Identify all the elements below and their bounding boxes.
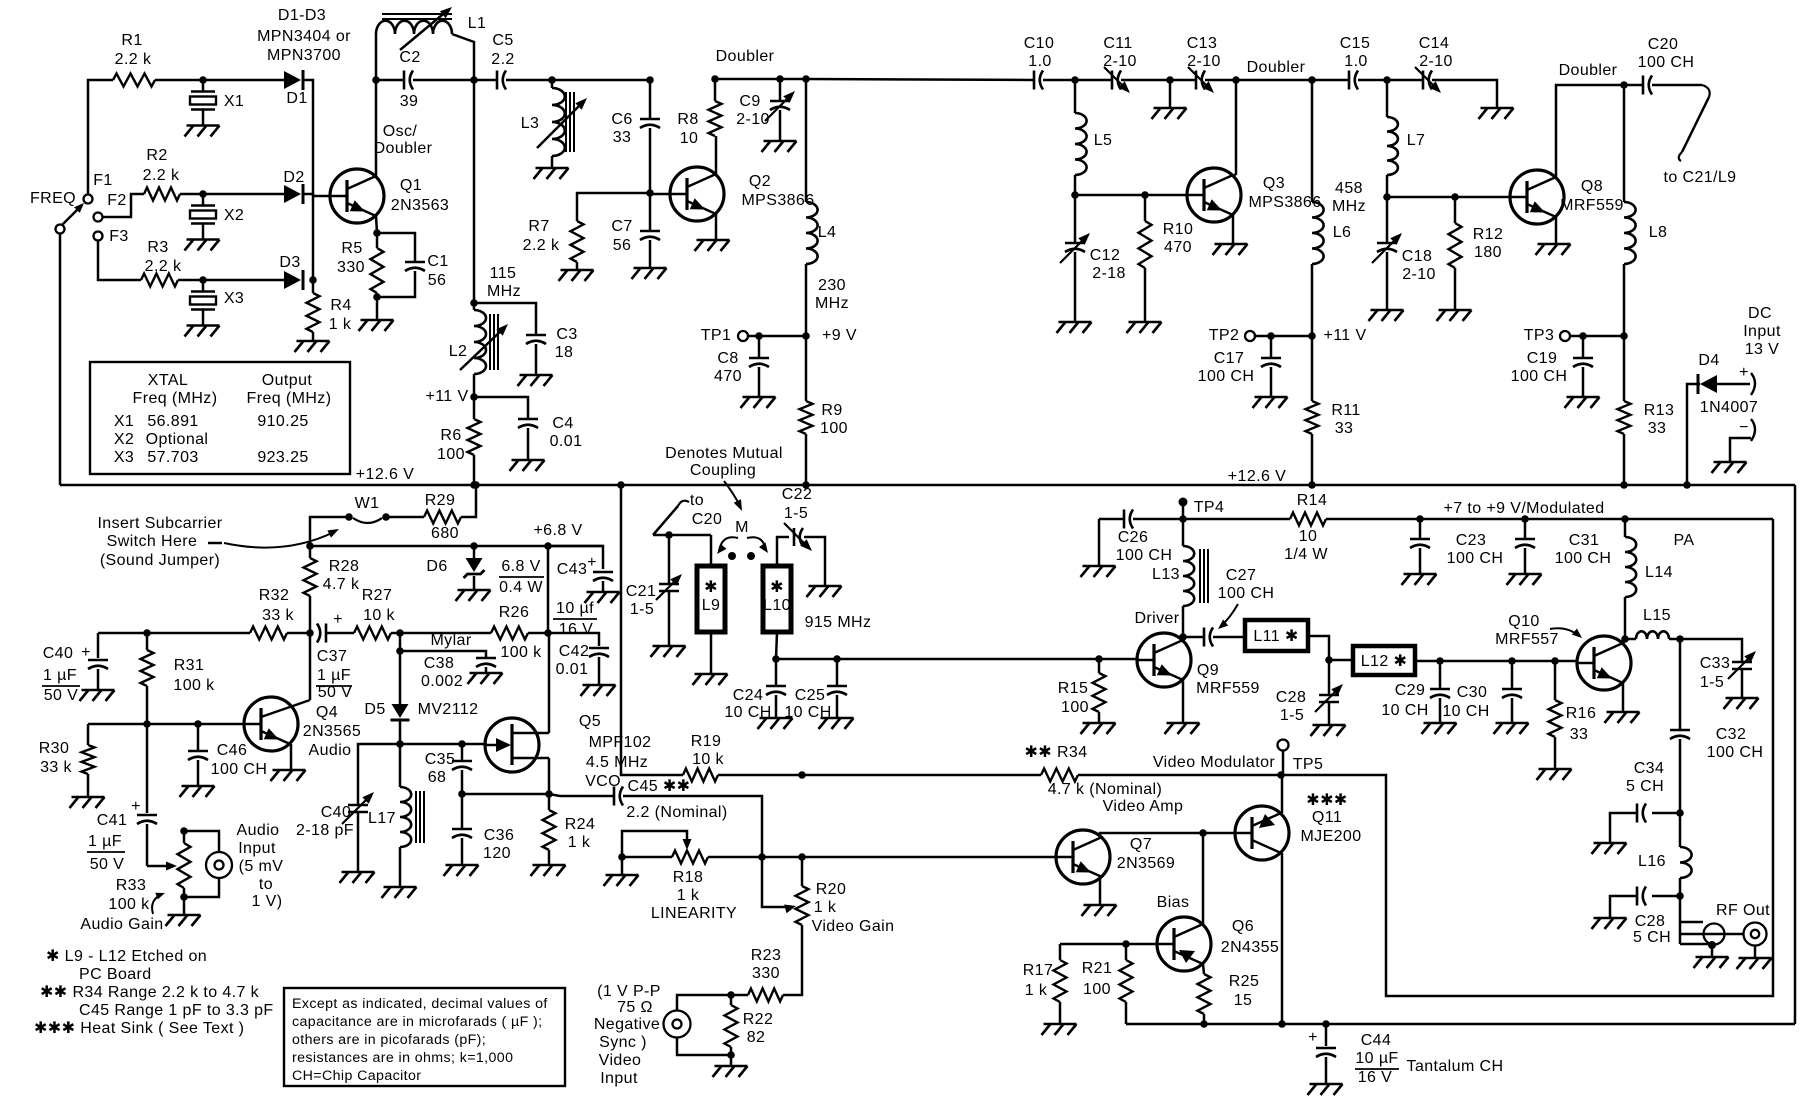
svg-text:C14: C14 xyxy=(1419,35,1450,52)
svg-text:PC Board: PC Board xyxy=(79,966,152,983)
ground R5 xyxy=(359,320,394,331)
wiper C41 to R33 xyxy=(147,862,177,871)
node L3 top xyxy=(548,76,556,84)
open lead to C21/L9 xyxy=(1664,85,1737,186)
svg-text:L15: L15 xyxy=(1643,607,1671,624)
svg-text:+12.6 V: +12.6 V xyxy=(356,466,414,483)
svg-text:R1: R1 xyxy=(121,32,142,49)
svg-text:Q9: Q9 xyxy=(1197,662,1219,679)
svg-text:33: 33 xyxy=(1335,420,1354,437)
capacitor C18 xyxy=(1372,197,1436,310)
svg-text:CH=Chip Capacitor: CH=Chip Capacitor xyxy=(292,1068,421,1084)
svg-text:1.0: 1.0 xyxy=(1344,53,1367,70)
ground C26 xyxy=(1081,566,1116,577)
svg-text:56: 56 xyxy=(613,237,632,254)
svg-text:0.002: 0.002 xyxy=(421,673,463,690)
wire Q4 base line xyxy=(88,723,244,726)
svg-text:C26: C26 xyxy=(1118,529,1149,546)
svg-text:Mylar: Mylar xyxy=(430,632,471,649)
svg-text:Insert Subcarrier: Insert Subcarrier xyxy=(97,515,222,532)
svg-text:Q10: Q10 xyxy=(1508,613,1539,630)
varactor D5 xyxy=(364,651,478,744)
svg-text:W1: W1 xyxy=(355,495,380,512)
svg-text:X2: X2 xyxy=(114,431,134,448)
trimmer C28a xyxy=(1276,660,1343,725)
svg-text:10: 10 xyxy=(1299,528,1318,545)
terminal F2 xyxy=(94,192,127,222)
svg-text:MJE200: MJE200 xyxy=(1300,828,1361,845)
svg-text:capacitance are in microfarads: capacitance are in microfarads ( µF ); xyxy=(292,1014,542,1030)
svg-text:1-5: 1-5 xyxy=(1280,707,1304,724)
node L12 line xyxy=(1325,656,1333,664)
ground Q10 xyxy=(1605,712,1640,723)
svg-text:D3: D3 xyxy=(279,254,300,271)
wire to L12 xyxy=(1329,659,1353,662)
svg-text:L4: L4 xyxy=(818,224,837,241)
rail +6.8V xyxy=(310,522,603,546)
node D4 rail xyxy=(1683,481,1691,489)
wire R26 right xyxy=(528,632,548,635)
svg-text:C34: C34 xyxy=(1634,760,1665,777)
node C43 branch xyxy=(544,542,552,550)
wire Q6 emitter xyxy=(1203,964,1204,974)
svg-text:2N4355: 2N4355 xyxy=(1221,939,1279,956)
ground C29 xyxy=(1422,723,1457,734)
wire filter out line xyxy=(776,658,1137,661)
svg-text:680: 680 xyxy=(431,525,459,542)
svg-text:✱✱ R34: ✱✱ R34 xyxy=(1024,744,1087,761)
svg-text:MRF559: MRF559 xyxy=(1560,197,1624,214)
svg-text:L6: L6 xyxy=(1333,224,1352,241)
node L15 right xyxy=(1676,635,1684,643)
svg-text:to: to xyxy=(259,876,273,893)
svg-text:X1: X1 xyxy=(224,93,244,110)
svg-text:56: 56 xyxy=(428,272,447,289)
svg-text:✱✱✱: ✱✱✱ xyxy=(1306,792,1347,809)
label 915 MHz xyxy=(805,614,872,631)
node R27 right xyxy=(396,629,404,637)
coupling dots xyxy=(728,552,755,560)
node C44 top xyxy=(1322,1020,1330,1028)
capacitor C20 xyxy=(1624,36,1702,95)
svg-text:MRF559: MRF559 xyxy=(1196,680,1260,697)
resistor R18 xyxy=(651,851,737,923)
svg-text:2N3563: 2N3563 xyxy=(391,197,449,214)
svg-text:C2: C2 xyxy=(399,49,420,66)
svg-text:2N3569: 2N3569 xyxy=(1117,855,1175,872)
resistor R8 xyxy=(677,79,721,147)
svg-text:C23: C23 xyxy=(1456,532,1487,549)
zener diode D6 xyxy=(426,546,484,590)
wire right border xyxy=(1794,485,1797,1024)
svg-text:Q6: Q6 xyxy=(1232,918,1254,935)
svg-text:C33: C33 xyxy=(1700,655,1731,672)
node L7 top xyxy=(1383,76,1391,84)
ground R18 xyxy=(604,875,639,886)
ground C33 xyxy=(1724,698,1759,709)
wire Q1 collector xyxy=(375,80,378,176)
svg-text:Bias: Bias xyxy=(1157,894,1190,911)
node D6 top xyxy=(470,542,478,550)
wire source line xyxy=(462,793,549,796)
wire Q6 base line xyxy=(1060,943,1157,946)
svg-text:100: 100 xyxy=(437,446,465,463)
label +11 V b xyxy=(1323,327,1366,344)
inductor L2 xyxy=(449,303,498,397)
inductor L1 xyxy=(376,14,486,80)
wire TP4 xyxy=(1182,502,1185,519)
arrow R33 xyxy=(152,893,165,914)
node C46 top xyxy=(194,720,202,728)
capacitor C8 xyxy=(714,336,769,397)
svg-text:C20: C20 xyxy=(1648,36,1679,53)
resistor R11 xyxy=(1306,336,1361,485)
inductor L7 xyxy=(1387,80,1425,197)
inductor L16 xyxy=(1638,813,1692,896)
resistor R7 xyxy=(523,193,650,270)
svg-text:to C21/L9: to C21/L9 xyxy=(1664,169,1737,186)
svg-text:10 k: 10 k xyxy=(363,607,395,624)
wire R5 to ground xyxy=(376,297,379,320)
capacitor C30 xyxy=(1442,661,1522,723)
capacitor C13 xyxy=(1187,35,1221,93)
node R18 left xyxy=(618,853,626,861)
svg-text:50 V: 50 V xyxy=(318,684,353,701)
svg-text:Doubler: Doubler xyxy=(1559,62,1618,79)
svg-text:+11 V: +11 V xyxy=(425,388,468,405)
testpoint TP5 xyxy=(1278,740,1324,774)
ground R24 xyxy=(531,865,566,876)
svg-text:+: + xyxy=(1739,364,1749,381)
svg-text:18: 18 xyxy=(555,344,574,361)
resistor R9 xyxy=(800,336,848,485)
svg-text:Doubler: Doubler xyxy=(374,140,433,157)
node C34 line xyxy=(1676,809,1684,817)
node C8 top xyxy=(755,332,763,340)
svg-text:D5: D5 xyxy=(364,701,385,718)
switch lever xyxy=(62,203,84,225)
ground C46 xyxy=(180,786,215,797)
svg-text:120: 120 xyxy=(483,845,511,862)
svg-text:L10: L10 xyxy=(763,597,791,614)
wire L10 bottom xyxy=(776,632,777,659)
svg-text:1N4007: 1N4007 xyxy=(1700,399,1758,416)
svg-text:2-10: 2-10 xyxy=(736,111,770,128)
diode D2 xyxy=(283,169,304,204)
testpoint TP2 xyxy=(1209,327,1255,344)
svg-text:923.25: 923.25 xyxy=(257,449,308,466)
capacitor C19 xyxy=(1511,336,1593,397)
arrow L1 tuning xyxy=(400,7,452,50)
svg-text:D1: D1 xyxy=(286,90,307,107)
svg-text:+11 V: +11 V xyxy=(1323,327,1366,344)
node +11V b xyxy=(1308,332,1316,340)
svg-text:2N3565: 2N3565 xyxy=(303,723,361,740)
wire Q5 drain xyxy=(548,633,551,733)
svg-text:2.2 k: 2.2 k xyxy=(145,258,182,275)
wire F2 to R2 xyxy=(103,194,145,217)
resistor R31 xyxy=(141,633,216,724)
svg-text:2-10: 2-10 xyxy=(1402,266,1436,283)
svg-text:2-10: 2-10 xyxy=(1187,53,1221,70)
svg-text:1/4 W: 1/4 W xyxy=(1284,546,1328,563)
svg-text:56.891: 56.891 xyxy=(147,413,198,430)
svg-text:Sync ): Sync ) xyxy=(599,1034,647,1051)
node D3 bus xyxy=(309,276,317,284)
svg-text:R33: R33 xyxy=(116,877,147,894)
node R12 top xyxy=(1451,193,1459,201)
svg-text:MPN3404 or: MPN3404 or xyxy=(257,28,351,45)
wire rail R8-C9 xyxy=(715,78,806,81)
svg-text:(1 V P-P: (1 V P-P xyxy=(597,983,661,1000)
wire F3 to R3 xyxy=(98,241,141,281)
capacitor C35 xyxy=(425,744,472,794)
node C17 top xyxy=(1267,332,1275,340)
svg-text:330: 330 xyxy=(337,259,365,276)
svg-text:6.8 V: 6.8 V xyxy=(501,558,540,575)
svg-text:R28: R28 xyxy=(329,558,360,575)
wiper loop R18 xyxy=(622,831,692,857)
node +11V xyxy=(470,393,478,401)
svg-text:C32: C32 xyxy=(1716,726,1747,743)
svg-text:C45 Range 1 pF to 3.3 pF: C45 Range 1 pF to 3.3 pF xyxy=(79,1002,274,1019)
svg-text:C43: C43 xyxy=(557,561,588,578)
wire Q1 base xyxy=(313,195,330,198)
ground minus terminal xyxy=(1712,462,1747,473)
svg-text:MHz: MHz xyxy=(487,283,521,300)
svg-text:R15: R15 xyxy=(1058,680,1089,697)
svg-text:Doubler: Doubler xyxy=(1247,59,1306,76)
wire TP5 line to PA loop xyxy=(1281,519,1773,996)
arrow Q10 xyxy=(1550,628,1582,638)
svg-text:+: + xyxy=(131,798,141,815)
inductor L8 xyxy=(1624,85,1667,336)
svg-text:X1: X1 xyxy=(114,413,134,430)
svg-text:C15: C15 xyxy=(1340,35,1371,52)
svg-text:C42: C42 xyxy=(559,643,590,660)
svg-text:+: + xyxy=(81,644,91,661)
wire C15 to node xyxy=(1358,79,1387,82)
ground Q2 xyxy=(695,240,730,251)
ground C4 xyxy=(510,460,545,471)
svg-text:Except as indicated, decimal v: Except as indicated, decimal values of xyxy=(292,996,548,1012)
wire to RF connectors xyxy=(1679,896,1682,944)
stripline L10 xyxy=(763,537,791,632)
svg-text:Q5: Q5 xyxy=(579,713,601,730)
wire base to Q2 xyxy=(650,193,670,196)
node Q3 collector top xyxy=(1232,76,1240,84)
node gnd stub 1 xyxy=(1166,76,1174,84)
node R10 top xyxy=(1141,191,1149,199)
svg-text:C28: C28 xyxy=(1276,689,1307,706)
label Doubler 2 xyxy=(1247,59,1306,76)
ground C42 xyxy=(581,685,616,696)
svg-text:C9: C9 xyxy=(739,93,760,110)
svg-text:Q1: Q1 xyxy=(400,177,422,194)
svg-text:910.25: 910.25 xyxy=(257,413,308,430)
crystal X2 xyxy=(185,194,245,251)
wire TP5 xyxy=(1282,751,1285,776)
ground R17 xyxy=(1042,1024,1077,1035)
svg-text:R24: R24 xyxy=(565,816,596,833)
ground R10 xyxy=(1127,322,1162,333)
node R21 top xyxy=(1122,940,1130,948)
capacitor C7 xyxy=(611,194,660,268)
RF Out connector xyxy=(1716,902,1770,946)
svg-text:C20: C20 xyxy=(692,511,723,528)
capacitor C42 xyxy=(548,633,609,685)
ground R12 xyxy=(1437,310,1472,321)
wire W1 to R28 xyxy=(310,517,346,546)
svg-text:100 CH: 100 CH xyxy=(1116,547,1173,564)
wire R3 to D3 xyxy=(178,279,284,282)
svg-text:33: 33 xyxy=(1648,420,1667,437)
svg-text:MV2112: MV2112 xyxy=(418,701,479,718)
wire R14 line left xyxy=(1183,518,1290,521)
svg-text:2-10: 2-10 xyxy=(1419,53,1453,70)
switch common terminal xyxy=(56,225,65,234)
svg-text:0.01: 0.01 xyxy=(556,661,589,678)
ground D6 xyxy=(456,590,491,601)
svg-text:100 k: 100 k xyxy=(500,644,542,661)
label denotes mutual coupling xyxy=(665,445,783,479)
node rail R19 xyxy=(617,481,625,489)
svg-text:Q11: Q11 xyxy=(1312,809,1342,826)
svg-text:✱ L9 - L12 Etched on: ✱ L9 - L12 Etched on xyxy=(46,948,207,965)
svg-text:Coupling: Coupling xyxy=(690,462,756,479)
wire to R26 xyxy=(400,632,491,635)
wire Q3 base line xyxy=(1075,194,1187,197)
label FREQ xyxy=(30,190,76,207)
svg-text:L8: L8 xyxy=(1649,224,1668,241)
ground C21 xyxy=(651,646,686,657)
svg-text:2.2 k: 2.2 k xyxy=(143,167,180,184)
capacitor C15 xyxy=(1312,35,1370,90)
svg-text:100 CH: 100 CH xyxy=(1447,550,1504,567)
wire Q10 emitter xyxy=(1622,683,1625,712)
svg-text:2-18 pF: 2-18 pF xyxy=(296,822,354,839)
node Q1 collector xyxy=(372,76,380,84)
audio input jack xyxy=(184,831,232,897)
svg-text:C22: C22 xyxy=(782,486,813,503)
wire R18 to R20 xyxy=(708,856,1056,859)
ground C44 xyxy=(1308,1084,1343,1095)
ground L3 xyxy=(534,168,569,179)
capacitor C34 xyxy=(1610,760,1680,843)
svg-text:R17: R17 xyxy=(1023,962,1054,979)
svg-text:1 µF: 1 µF xyxy=(88,833,122,850)
svg-text:4.5 MHz: 4.5 MHz xyxy=(586,754,648,771)
svg-text:D6: D6 xyxy=(426,558,447,575)
ground C40 input xyxy=(80,690,115,701)
svg-text:F3: F3 xyxy=(109,228,128,245)
wire video jack top xyxy=(677,995,731,1011)
wire R32 to node xyxy=(287,632,310,635)
transistor Q10 xyxy=(1495,613,1631,690)
capacitor C36 xyxy=(452,794,514,865)
wire common line xyxy=(1126,1023,1795,1026)
svg-text:R18: R18 xyxy=(673,869,704,886)
node C6 top xyxy=(646,76,654,84)
svg-text:100 CH: 100 CH xyxy=(1555,550,1612,567)
resistor R5 xyxy=(337,233,383,297)
svg-text:R30: R30 xyxy=(39,740,70,757)
wire switch common down xyxy=(59,233,62,485)
wire R33 to ground xyxy=(183,897,186,915)
svg-text:C5: C5 xyxy=(492,32,513,49)
resistor R23 xyxy=(748,947,783,1002)
node R22 bottom xyxy=(727,1051,735,1059)
svg-text:Switch Here: Switch Here xyxy=(107,533,198,550)
svg-text:R29: R29 xyxy=(425,492,456,509)
svg-text:330: 330 xyxy=(752,965,780,982)
wire rail to C11 xyxy=(1075,79,1112,82)
svg-text:R22: R22 xyxy=(743,1011,774,1028)
svg-text:D1-D3: D1-D3 xyxy=(278,7,326,24)
svg-text:C46: C46 xyxy=(217,742,248,759)
resistor R22 xyxy=(725,995,774,1055)
node X1 xyxy=(199,76,207,84)
svg-text:C27: C27 xyxy=(1226,567,1257,584)
wire TP2 xyxy=(1255,335,1312,338)
capacitor C5 xyxy=(474,32,552,90)
svg-text:5 CH: 5 CH xyxy=(1633,929,1671,946)
svg-text:TP5: TP5 xyxy=(1293,756,1324,773)
ground R15 xyxy=(1081,723,1116,734)
capacitor C38 xyxy=(400,632,496,690)
node C38 line xyxy=(396,647,404,655)
ground R7 xyxy=(559,270,594,281)
svg-text:1-5: 1-5 xyxy=(1700,674,1724,691)
svg-text:100 k: 100 k xyxy=(173,677,215,694)
svg-text:Freq (MHz): Freq (MHz) xyxy=(247,390,332,407)
ground R22 xyxy=(713,1066,748,1077)
svg-text:M: M xyxy=(735,519,749,536)
svg-text:PA: PA xyxy=(1674,532,1695,549)
svg-text:FREQ: FREQ xyxy=(30,190,76,207)
wire rail to L6 xyxy=(1236,79,1312,82)
label Doubler 3 xyxy=(1559,62,1618,79)
node C28b line xyxy=(1676,892,1684,900)
label video amp xyxy=(1103,798,1184,815)
wire F1 to R1 xyxy=(88,80,113,195)
stripline L11 xyxy=(1245,620,1308,651)
wire TP1 xyxy=(748,335,806,338)
ground RFout xyxy=(1737,958,1772,969)
svg-text:R23: R23 xyxy=(751,947,782,964)
svg-text:L3: L3 xyxy=(521,115,540,132)
node 115MHz xyxy=(470,299,478,307)
terminal F1 xyxy=(84,172,113,204)
svg-text:X2: X2 xyxy=(224,207,244,224)
label +11 V xyxy=(425,388,468,405)
capacitor C45 xyxy=(549,778,762,857)
label PA xyxy=(1674,532,1695,549)
open lead to C20 b xyxy=(653,492,722,535)
svg-text:R12: R12 xyxy=(1473,226,1504,243)
wire C14 to gnd stub xyxy=(1432,80,1497,108)
svg-text:10 k: 10 k xyxy=(692,751,724,768)
node R26 right xyxy=(544,629,552,637)
ground C23 xyxy=(1402,574,1437,585)
svg-text:C13: C13 xyxy=(1187,35,1218,52)
ground C38 xyxy=(468,673,503,684)
inductor L15 xyxy=(1625,607,1680,639)
ground C28a xyxy=(1311,725,1346,736)
node R8 rail xyxy=(711,75,719,83)
svg-text:C41: C41 xyxy=(97,812,128,829)
label D1-D3 xyxy=(257,7,351,64)
